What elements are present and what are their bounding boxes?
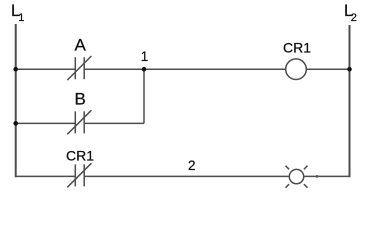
svg-text:CR1: CR1	[283, 40, 311, 56]
svg-text:1: 1	[141, 49, 149, 64]
svg-text:2: 2	[188, 158, 196, 173]
svg-text:CR1: CR1	[66, 147, 94, 163]
svg-text:1: 1	[18, 12, 24, 24]
svg-text:A: A	[75, 35, 87, 54]
svg-text:2: 2	[351, 12, 357, 24]
svg-text:B: B	[75, 90, 86, 109]
